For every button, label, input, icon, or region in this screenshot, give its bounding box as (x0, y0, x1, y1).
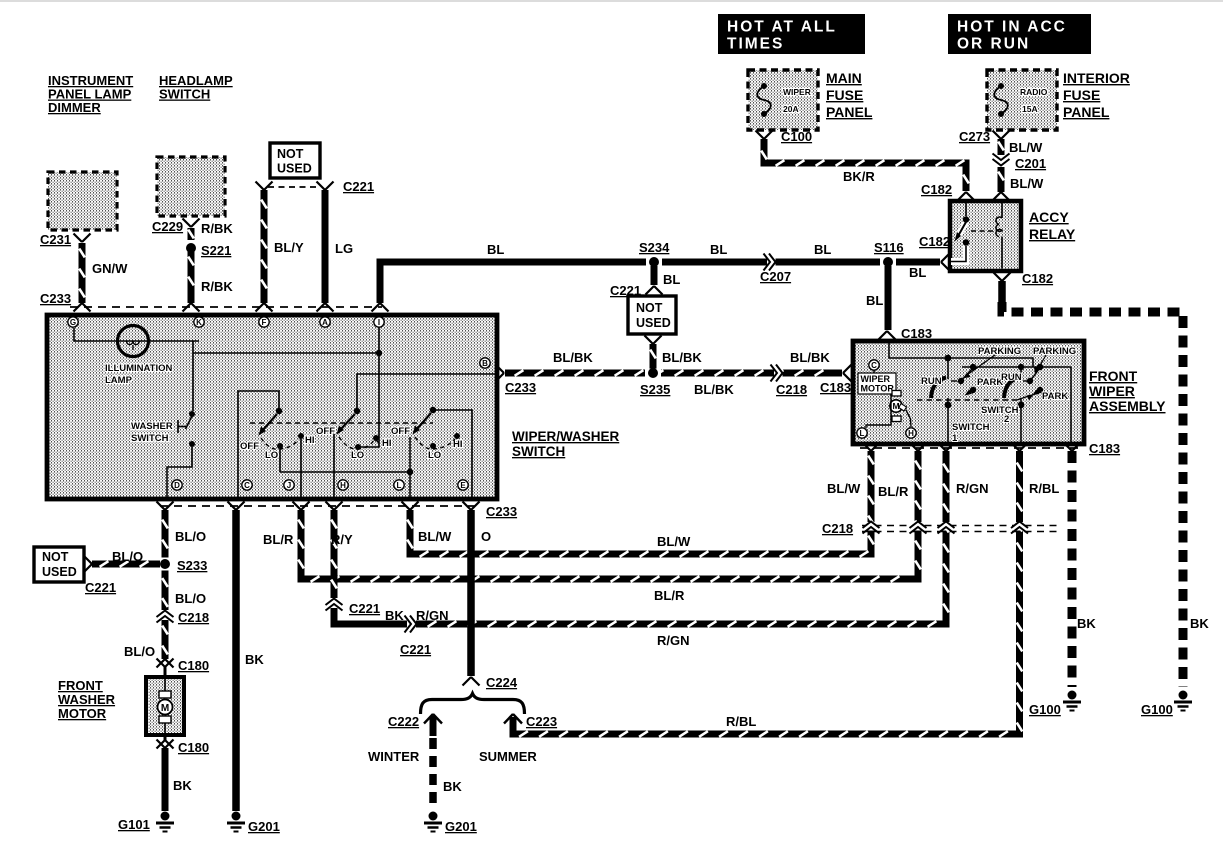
svg-text:NOT: NOT (636, 301, 663, 315)
svg-text:C273: C273 (959, 129, 990, 144)
connector C233 flare at pin K wire (183, 303, 192, 312)
dashed arc group 2 (339, 437, 374, 449)
parking pointer 2 (1037, 355, 1047, 372)
pin J (284, 480, 294, 490)
connector C221 flares under NOT USED box (256, 182, 265, 191)
pin I (374, 317, 384, 327)
wire pin I down to LO2 (360, 327, 379, 447)
wire BL/O from pin D (162, 510, 169, 558)
svg-text:TIMES: TIMES (727, 36, 784, 53)
svg-text:S235: S235 (640, 382, 670, 397)
pin E (458, 480, 468, 490)
svg-text:PARKING: PARKING (1033, 346, 1076, 357)
wire BL/W lower (998, 167, 1005, 192)
ground G201 winter (429, 812, 438, 821)
dashed link under NOT USED box (268, 186, 320, 188)
wire OFF3 down to rail (409, 437, 411, 472)
decorative top edge line (0, 0, 1223, 2)
connector C223 arrow (504, 714, 513, 724)
connector C221 chevron on R/Y (329, 599, 340, 608)
splice S221 (187, 240, 196, 256)
svg-text:I: I (378, 318, 380, 327)
connector C180 lower (164, 735, 167, 740)
svg-text:H: H (340, 481, 346, 490)
run-park switch 1 (945, 355, 952, 362)
connector C222 arrow (424, 714, 433, 724)
pin flares at switch box bottom (157, 502, 166, 511)
wire BK segment (334, 608, 407, 624)
assembly right rail to ground pin (1070, 367, 1072, 443)
parking pointer 1 (966, 350, 1003, 376)
wire motor to pin L (866, 394, 891, 428)
svg-text:BL/W: BL/W (827, 481, 861, 496)
svg-text:D: D (174, 481, 180, 490)
wiper motor M (892, 391, 901, 397)
svg-text:S234: S234 (639, 240, 670, 255)
svg-text:MAIN: MAIN (826, 70, 862, 86)
svg-text:BL: BL (909, 265, 926, 280)
interior rail to pin I (193, 352, 379, 354)
wire BL/O below S233 (162, 571, 169, 611)
splice S235 (645, 369, 661, 378)
svg-text:BL/W: BL/W (418, 529, 452, 544)
svg-text:LO: LO (428, 450, 441, 461)
svg-text:R/Y: R/Y (331, 532, 353, 547)
svg-text:15A: 15A (1022, 104, 1038, 114)
washer switch (189, 411, 195, 417)
svg-text:PARK: PARK (1042, 391, 1068, 402)
svg-text:C221: C221 (349, 601, 380, 616)
svg-text:BL/R: BL/R (263, 532, 294, 547)
wire switch 2 pivot to pin B (357, 374, 496, 408)
svg-text:WASHER: WASHER (131, 421, 173, 432)
wire R/BK upper (188, 228, 195, 247)
assembly top rail (889, 343, 1033, 367)
svg-text:DIMMER: DIMMER (48, 100, 101, 115)
svg-text:LG: LG (335, 241, 353, 256)
svg-text:C218: C218 (822, 521, 853, 536)
svg-text:BK: BK (443, 779, 462, 794)
pin C (242, 480, 252, 490)
fuse WIPER 20A (761, 83, 767, 89)
svg-text:WIPER: WIPER (861, 374, 891, 384)
switch 1 output to R/GN pin (945, 402, 952, 409)
accy relay linkage dashed (971, 230, 996, 232)
svg-text:C223: C223 (526, 714, 557, 729)
pin B (480, 358, 490, 368)
accy relay box (950, 201, 1021, 271)
svg-text:G: G (70, 318, 76, 327)
wire pin K down to washer switch (192, 341, 194, 411)
svg-text:RELAY: RELAY (1029, 226, 1076, 242)
dashed arc group 3 (415, 437, 455, 449)
ground G101 (161, 812, 170, 821)
connector C233 flare at pin I wire (372, 303, 381, 312)
connector C207 (767, 257, 776, 268)
svg-text:INTERIOR: INTERIOR (1063, 70, 1130, 86)
svg-text:BL/R: BL/R (654, 588, 685, 603)
wire LO1 to rail (279, 449, 281, 472)
svg-text:A: A (322, 318, 328, 327)
svg-text:USED: USED (42, 565, 77, 579)
svg-text:BL: BL (710, 242, 727, 257)
svg-text:R/BK: R/BK (201, 221, 233, 236)
svg-text:BK: BK (173, 778, 192, 793)
svg-text:SWITCH: SWITCH (131, 433, 169, 444)
svg-text:BL: BL (487, 242, 504, 257)
svg-text:C218: C218 (178, 610, 209, 625)
svg-text:HI: HI (305, 435, 315, 446)
connector C100 (756, 131, 765, 140)
svg-text:USED: USED (277, 162, 312, 176)
svg-text:L: L (860, 429, 865, 438)
svg-text:LO: LO (265, 450, 278, 461)
svg-text:C233: C233 (40, 291, 71, 306)
wire HI1 to pin J (300, 439, 302, 497)
wire R/GN to assembly (416, 451, 946, 624)
svg-text:WASHER: WASHER (58, 692, 116, 707)
svg-text:HI: HI (453, 439, 463, 450)
svg-text:C182: C182 (919, 234, 950, 249)
wire O from switch pin E to C224 (467, 510, 475, 676)
mechanical linkage dashed in assembly (917, 399, 1017, 401)
svg-text:RADIO: RADIO (1020, 87, 1048, 97)
wire LG (solid) (322, 190, 329, 303)
connector C273 (993, 131, 1002, 140)
svg-text:C221: C221 (343, 179, 374, 194)
svg-text:OFF: OFF (240, 441, 259, 452)
svg-text:LO: LO (351, 450, 364, 461)
splice S116 (880, 258, 896, 267)
NOT USED box middle (628, 296, 676, 334)
svg-text:C183: C183 (820, 380, 851, 395)
wire BL/BK stub from NOT USED to S235 (650, 344, 657, 369)
wire BK from switch pin C to G201 (232, 510, 240, 811)
svg-text:BL/O: BL/O (112, 549, 143, 564)
svg-text:MOTOR: MOTOR (58, 706, 107, 721)
pin C stub (873, 370, 875, 373)
svg-text:ILLUMINATION: ILLUMINATION (105, 363, 173, 374)
wiper motor label box (858, 373, 896, 394)
dashed arc group 1 (261, 438, 299, 449)
HOT IN ACC OR RUN banner (948, 14, 1091, 54)
svg-text:1: 1 (952, 433, 958, 444)
svg-text:C182: C182 (1022, 271, 1053, 286)
svg-text:BL/O: BL/O (175, 529, 206, 544)
pin H (906, 428, 916, 438)
pin L (394, 480, 404, 490)
svg-text:BL/R: BL/R (878, 484, 909, 499)
svg-text:HOT AT ALL: HOT AT ALL (727, 19, 837, 36)
svg-text:BL/W: BL/W (1009, 140, 1043, 155)
svg-text:H: H (908, 429, 914, 438)
connector C221 chevron on R/GN (408, 619, 417, 630)
svg-text:HI: HI (382, 438, 392, 449)
svg-text:BL/Y: BL/Y (274, 240, 304, 255)
pin H (338, 480, 348, 490)
svg-text:C221: C221 (85, 580, 116, 595)
svg-text:2: 2 (1004, 414, 1009, 425)
front wiper assembly box (853, 341, 1084, 444)
svg-text:G100: G100 (1141, 702, 1173, 717)
svg-text:BL: BL (866, 293, 883, 308)
svg-text:G201: G201 (248, 819, 280, 834)
wire OFF2 to pin H (333, 434, 335, 497)
pin A (320, 317, 330, 327)
switch 2 output to R/BL pin (1018, 402, 1025, 409)
connector C182 flare at relay top left (958, 192, 967, 201)
connector C233 flare at pin A wire (317, 303, 326, 312)
wire BL/O to washer motor (162, 620, 169, 659)
wire BL from wiper switch pin I to accy relay (380, 262, 940, 303)
connector C231 (74, 234, 83, 243)
accy relay contact (965, 203, 967, 216)
svg-text:SWITCH: SWITCH (981, 405, 1019, 416)
svg-text:WIPER: WIPER (783, 87, 811, 97)
svg-text:PANEL: PANEL (826, 104, 873, 120)
NOT USED box left at C221 (34, 547, 84, 582)
svg-text:OFF: OFF (316, 426, 335, 437)
svg-text:WINTER: WINTER (368, 749, 420, 764)
svg-text:BL/BK: BL/BK (553, 350, 593, 365)
connector flare below middle NOT USED box (645, 336, 654, 345)
pin D (172, 480, 182, 490)
main fuse panel box (dashed) (748, 70, 818, 130)
svg-text:ACCY: ACCY (1029, 209, 1069, 225)
svg-text:C: C (244, 481, 250, 490)
svg-text:BL/O: BL/O (124, 644, 155, 659)
pin G (68, 317, 78, 327)
wire BL/BK from wiper switch pin B to assembly (505, 370, 842, 377)
pin flares at assembly bottom (863, 443, 872, 452)
svg-text:R/BK: R/BK (201, 279, 233, 294)
svg-text:BL/BK: BL/BK (694, 382, 734, 397)
gang linkage dashed line (250, 422, 433, 424)
wire BL/O horizontal (92, 561, 160, 568)
connector C233 flare at pin B (496, 365, 505, 374)
wire rail to pin L (409, 472, 411, 497)
svg-text:C100: C100 (781, 129, 812, 144)
pin L (857, 428, 867, 438)
svg-text:BL/BK: BL/BK (662, 350, 702, 365)
svg-text:C218: C218 (776, 382, 807, 397)
svg-text:PANEL: PANEL (1063, 104, 1110, 120)
switch group 3 (OFF/LO/HI) (430, 407, 436, 413)
svg-text:RUN: RUN (1001, 372, 1022, 383)
connector flare at left NOT USED box (84, 556, 93, 565)
wire R/BK lower (188, 249, 195, 303)
front washer motor M symbol (164, 679, 166, 691)
wire BL/W from switch pin L to assembly (410, 451, 871, 554)
svg-text:BK/R: BK/R (843, 169, 875, 184)
connector C224 (463, 677, 472, 686)
svg-text:C183: C183 (1089, 441, 1120, 456)
wire BL/R from switch pin J to assembly (301, 451, 918, 579)
interior fuse panel box (dashed) (987, 70, 1057, 130)
switch group 2 (OFF/LO/HI) (354, 408, 360, 414)
splice S233 (161, 557, 170, 572)
svg-text:C224: C224 (486, 675, 518, 690)
svg-text:FUSE: FUSE (1063, 87, 1100, 103)
connector C221 flare above NOT USED box (646, 286, 655, 295)
svg-text:R/GN: R/GN (956, 481, 989, 496)
wire BL/Y (261, 190, 268, 303)
ground G100 right (1179, 691, 1188, 700)
svg-text:S233: S233 (177, 558, 207, 573)
svg-text:R/GN: R/GN (416, 608, 449, 623)
wire pin C to switch 1 pivot (238, 391, 279, 497)
svg-text:ASSEMBLY: ASSEMBLY (1089, 398, 1166, 414)
svg-text:C180: C180 (178, 658, 209, 673)
svg-text:BK: BK (385, 608, 404, 623)
svg-text:K: K (196, 318, 202, 327)
wire BK dashed from assembly to G100 (1068, 451, 1077, 687)
splice S234 (646, 258, 662, 267)
svg-text:C180: C180 (178, 740, 209, 755)
headlamp switch box (dashed, to C229) (157, 157, 225, 216)
connector C180 upper (157, 659, 166, 668)
brace at C224 split (421, 694, 525, 715)
accy relay contact to BL input (951, 246, 966, 262)
assembly bottom dashed connector line C183 (860, 447, 1078, 449)
wire BL stub from S234 down to C221 (651, 266, 658, 285)
svg-text:HOT IN ACC: HOT IN ACC (957, 19, 1067, 36)
wire BK dashed from accy relay to G100 (998, 281, 1006, 302)
illumination lamp wire from pin G (74, 328, 199, 341)
svg-text:C229: C229 (152, 219, 183, 234)
fuse RADIO 15A (998, 83, 1004, 89)
wire BK winter dashed (429, 738, 437, 810)
svg-text:BL/W: BL/W (657, 534, 691, 549)
svg-text:F: F (262, 318, 267, 327)
svg-text:FUSE: FUSE (826, 87, 863, 103)
svg-text:O: O (481, 529, 491, 544)
wire switch 3 pivot to pin E (436, 410, 472, 497)
connector C218 chevron on BL/W (866, 522, 877, 531)
svg-text:R/BL: R/BL (1029, 481, 1059, 496)
connector C183 flare at assembly left (843, 365, 852, 374)
connector C233 dashed line above switch box (70, 306, 382, 308)
svg-text:C231: C231 (40, 232, 71, 247)
svg-text:WIPER/WASHER: WIPER/WASHER (512, 429, 620, 444)
wire motor to pin H (906, 410, 911, 427)
svg-text:NOT: NOT (277, 147, 304, 161)
run-park switch 2 (1018, 364, 1024, 370)
HOT AT ALL TIMES banner (718, 14, 865, 54)
pin K (194, 317, 204, 327)
connector C218 chevron on BL/O (160, 611, 171, 620)
ground G201 (232, 812, 241, 821)
svg-text:BL/W: BL/W (1010, 176, 1044, 191)
svg-text:BL/BK: BL/BK (790, 350, 830, 365)
NOT USED box top at C221 (270, 143, 320, 178)
svg-text:C221: C221 (400, 642, 431, 657)
connector C182 flare at relay bottom (994, 273, 1003, 282)
svg-text:PARK: PARK (977, 377, 1003, 388)
instrument panel lamp dimmer box (dashed, to C231) (48, 172, 117, 230)
connector C218 on BL/BK (774, 368, 783, 379)
wire R/BL from assembly to C223 summer (513, 451, 1020, 734)
accy relay coil (1001, 203, 1003, 216)
wire BK/R (764, 139, 966, 191)
svg-text:C222: C222 (388, 714, 419, 729)
svg-text:FRONT: FRONT (1089, 368, 1138, 384)
svg-text:C182: C182 (921, 182, 952, 197)
connector C182 flare at relay left (941, 254, 950, 263)
wire R/Y from switch pin H (331, 510, 338, 598)
illumination lamp (118, 326, 149, 357)
svg-text:USED: USED (636, 316, 671, 330)
svg-text:C233: C233 (486, 504, 517, 519)
svg-text:B: B (482, 359, 488, 368)
connector C233 left flare (74, 303, 83, 312)
junction dot on pin I wire (376, 350, 382, 356)
connector C233 dashed line below switch box (160, 505, 475, 507)
svg-text:S221: S221 (201, 243, 231, 258)
svg-text:RUN: RUN (921, 376, 942, 387)
svg-text:BL/O: BL/O (175, 591, 206, 606)
wire GN/W (79, 243, 86, 303)
connector C218 dashed lines right side (862, 525, 1060, 527)
svg-text:S116: S116 (874, 240, 904, 255)
wire BL/W upper (998, 139, 1005, 155)
svg-text:FRONT: FRONT (58, 678, 103, 693)
svg-text:MOTOR: MOTOR (861, 384, 895, 394)
svg-text:OFF: OFF (391, 426, 410, 437)
svg-text:C: C (871, 361, 877, 370)
svg-text:PARKING: PARKING (978, 346, 1021, 357)
interior rail to pin L (280, 471, 410, 473)
svg-text:G101: G101 (118, 817, 150, 832)
svg-text:G100: G100 (1029, 702, 1061, 717)
ground G100 left (1068, 691, 1077, 700)
svg-text:20A: 20A (783, 104, 799, 114)
svg-text:SWITCH: SWITCH (512, 444, 565, 459)
svg-text:G201: G201 (445, 819, 477, 834)
wire BL down from S116 to front wiper assembly (885, 266, 892, 330)
front washer motor box (146, 677, 184, 735)
svg-text:WIPER: WIPER (1089, 383, 1135, 399)
svg-text:BK: BK (245, 652, 264, 667)
svg-text:L: L (397, 481, 402, 490)
connector C218 chevron on BL/R (913, 522, 924, 531)
svg-text:M: M (892, 401, 899, 411)
svg-text:GN/W: GN/W (92, 261, 128, 276)
svg-text:BK: BK (1190, 616, 1209, 631)
svg-text:SWITCH: SWITCH (159, 87, 210, 102)
connector C218 chevron on R/BL (1014, 522, 1025, 531)
svg-text:E: E (460, 481, 466, 490)
svg-text:SUMMER: SUMMER (479, 749, 537, 764)
svg-text:BL: BL (663, 272, 680, 287)
svg-text:BL: BL (814, 242, 831, 257)
svg-text:BK: BK (1077, 616, 1096, 631)
assembly second rail (962, 366, 1071, 368)
svg-text:OR RUN: OR RUN (957, 36, 1030, 53)
pin F (259, 317, 269, 327)
wire BK washer motor to ground (162, 748, 169, 811)
connector C218 chevron on R/GN (941, 522, 952, 531)
connector C229 (183, 219, 192, 228)
svg-text:R/GN: R/GN (657, 633, 690, 648)
wiper/washer switch box (47, 315, 497, 499)
connector C182 flare at relay top right (993, 192, 1002, 201)
pin C (869, 360, 879, 370)
switch group 1 (OFF/LO/HI) (276, 408, 282, 414)
svg-text:C233: C233 (505, 380, 536, 395)
svg-text:M: M (161, 703, 169, 714)
connector C233 flare at pin F wire (256, 303, 265, 312)
